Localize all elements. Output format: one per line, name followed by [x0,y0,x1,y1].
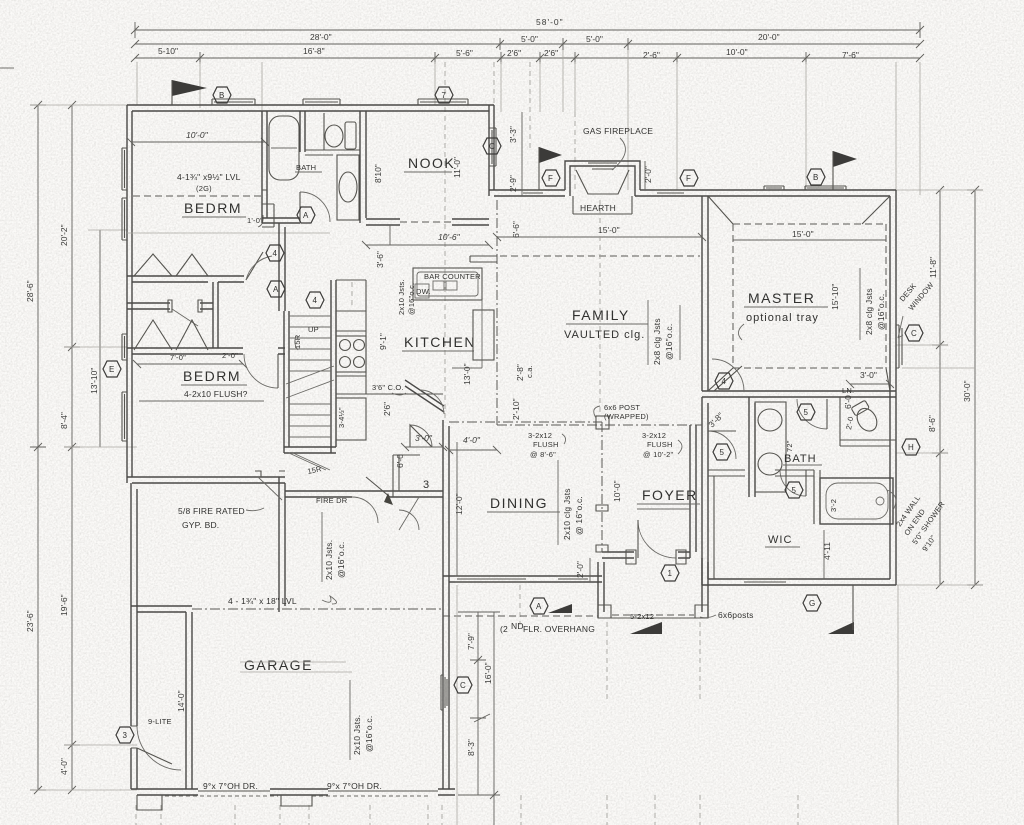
dimension line right inner 11-8 / 8'-6 / 9'10 [932,190,948,585]
svg-text:28'-0": 28'-0" [310,32,332,42]
svg-text:8'-3": 8'-3" [466,739,476,756]
svg-text:2'-9": 2'-9" [508,175,518,192]
dimension line top 58'-0" [135,22,920,38]
porch post right [695,605,708,618]
tub master [820,478,893,524]
svg-text:30'-0": 30'-0" [962,380,972,402]
extension lines from top dims down to building [137,50,920,195]
pantry door arc [410,390,444,447]
window bedroom2 west [122,334,127,360]
pennant master left [833,151,857,167]
hex F fireplace right [680,170,698,186]
window bedroom2 west lower [122,392,127,441]
bath south wall + door [262,218,300,223]
svg-text:VAULTED clg.: VAULTED clg. [564,329,645,341]
svg-text:2'-8": 2'-8" [515,364,525,381]
svg-text:2x8 clg Jsts: 2x8 clg Jsts [652,318,662,365]
svg-text:8'-6": 8'-6" [927,415,937,432]
toilet room wall [840,397,896,446]
north wall (double line) [127,105,494,111]
bath vanity wall [749,397,755,497]
svg-text:DW.: DW. [416,287,431,296]
hex A hall mid [267,281,285,297]
bedroom2 closet wall [127,348,243,354]
kitchen east dash boundary [496,200,498,425]
svg-text:4'-11: 4'-11 [822,542,832,560]
closet wall bedroom1 [127,276,244,282]
svg-text:BEDRM: BEDRM [183,368,241,384]
closet bifold peaks bedroom1 [134,254,208,276]
window bedroom1 west [122,148,127,190]
svg-text:4: 4 [313,296,318,305]
svg-text:@ 8'-6": @ 8'-6" [530,450,556,459]
tub [269,116,299,180]
stair treads [289,316,331,437]
svg-text:4 - 1¾" x 18" LVL: 4 - 1¾" x 18" LVL [228,596,297,606]
closet door arc [399,497,419,530]
svg-text:15'-0": 15'-0" [792,229,814,239]
porch left wall [598,562,604,618]
svg-text:15'-0": 15'-0" [598,225,620,235]
corner pantry dining side [405,380,444,412]
master east window [896,325,902,368]
hall door arc to wic area [708,431,736,459]
hex B master window [807,169,825,185]
window bedroom1 west lower [122,198,127,240]
svg-text:BEDRM: BEDRM [184,200,242,216]
svg-text:2'6": 2'6" [382,402,392,416]
svg-text:3: 3 [423,479,430,491]
svg-text:FIRE DR: FIRE DR [316,496,348,505]
svg-text:7'-0": 7'-0" [170,353,186,362]
svg-text:6x6 POST: 6x6 POST [604,403,640,412]
south wall of master block [702,579,896,585]
svg-text:19'-6": 19'-6" [59,594,69,616]
stair east wall [331,280,336,453]
foyer west boundary dashed [601,422,603,552]
svg-text:11'-0": 11'-0" [452,157,462,178]
dining north beam dash-dot [449,421,602,423]
dining south wall [443,576,602,582]
vanity hall bath [337,155,359,220]
svg-text:16'-0": 16'-0" [483,662,493,684]
closet bifold peaks bedroom2 [134,320,208,350]
dimension line top third row [135,52,920,64]
svg-text:BATH: BATH [784,453,817,465]
hex C nook window [483,138,501,154]
svg-text:9'-1": 9'-1" [378,333,388,350]
svg-text:4-1¾" x9½" LVL: 4-1¾" x9½" LVL [177,172,241,182]
master dim 15'-0 [733,239,886,241]
hex 5 hall door [713,444,731,460]
svg-text:3-4½": 3-4½" [337,407,346,428]
svg-text:G: G [809,599,815,608]
fireplace vent [588,163,617,169]
svg-text:GARAGE: GARAGE [244,657,313,673]
cabinet below stairs [336,398,366,440]
svg-text:NOOK: NOOK [408,155,455,171]
master north window 1 [764,186,784,190]
dishwasher [415,284,429,298]
triangle se [828,622,854,634]
svg-text:(2G): (2G) [196,184,212,193]
6x6 post family [596,416,609,429]
porch bottom beam [612,614,694,616]
svg-text:72": 72" [785,440,794,452]
hall bedroom2 door opening arc at south wall [258,477,282,500]
svg-text:4'-0": 4'-0" [59,758,69,775]
dining south window 1 [455,576,528,582]
beam dashed under note [133,195,262,197]
nook east wall [489,105,494,196]
dimension 13'-10 near west wall [99,230,101,447]
svg-text:F: F [686,174,691,183]
svg-text:(WRAPPED): (WRAPPED) [604,412,649,421]
svg-text:HEARTH: HEARTH [580,203,616,213]
svg-text:FAMILY: FAMILY [572,307,630,323]
svg-text:4'-0": 4'-0" [463,435,481,445]
svg-text:5-10": 5-10" [158,46,178,56]
family center faint vertical [599,200,601,415]
fireplace firebox trapezoid [576,170,629,194]
master north wall [702,190,896,196]
svg-text:2'-0": 2'-0" [643,166,653,183]
svg-text:2x10 clg Jsts: 2x10 clg Jsts [562,488,572,540]
svg-text:7: 7 [442,91,447,100]
hall wall y302 [127,303,213,309]
svg-text:13'-10": 13'-10" [89,368,99,394]
west wall upper (bedroom wing) [127,105,132,483]
svg-text:FLR. OVERHANG: FLR. OVERHANG [523,624,595,634]
svg-text:@ 16"o.c.: @ 16"o.c. [574,496,584,535]
svg-text:6'-0: 6'-0 [395,454,405,468]
bath door arc [300,192,330,222]
north window over nook [418,99,468,105]
svg-text:KITCHEN: KITCHEN [404,334,476,350]
toilet wall stub [329,149,360,151]
kitchen south counter line [366,393,443,395]
svg-text:C: C [489,142,495,151]
hex C garage window [454,677,472,693]
svg-text:2'6": 2'6" [544,48,558,58]
svg-text:6'-6": 6'-6" [511,221,521,238]
master toilet [850,400,881,435]
svg-text:@16"o.c.: @16"o.c. [364,716,374,752]
svg-text:20'-0": 20'-0" [758,32,780,42]
svg-text:2'-10": 2'-10" [511,398,521,420]
hex 5 bath door [797,404,815,420]
svg-text:(2: (2 [500,624,508,634]
hex H east [902,439,920,455]
svg-text:BATH: BATH [296,163,316,172]
garage west interior wall [186,612,192,789]
hex B top bedroom [213,87,231,103]
svg-text:5: 5 [792,486,797,495]
pennant fireplace left [539,147,562,163]
svg-text:2'-0": 2'-0" [222,351,238,360]
svg-text:5'-0": 5'-0" [586,34,603,44]
svg-text:H: H [908,443,914,452]
bath entry door arc [797,399,827,429]
svg-text:15R: 15R [293,334,302,349]
mid wall bedroom2 south [127,477,285,483]
family north wall right of fireplace [635,190,702,196]
svg-text:5-2x12: 5-2x12 [630,612,654,621]
svg-text:C: C [460,681,466,690]
svg-text:4-2x10 FLUSH?: 4-2x10 FLUSH? [184,389,248,399]
master tray dashed rect [733,224,886,368]
left extension lines [30,105,137,790]
svg-text:4: 4 [722,377,727,386]
stair west wall [284,311,289,453]
kitchen east builtin [473,310,494,360]
svg-text:8'-4": 8'-4" [59,412,69,429]
stair bottom wall [284,447,336,453]
svg-text:UP: UP [308,325,319,334]
svg-text:7'-6": 7'-6" [842,50,859,60]
svg-text:@16"o.c.: @16"o.c. [336,542,346,578]
svg-text:2'-0": 2'-0" [575,561,585,578]
bath mid wall [305,150,333,155]
garage north wall + beam [131,606,192,612]
svg-text:15'-10": 15'-10" [830,284,840,310]
triangle porch left [548,604,572,613]
dim 10'-0 bedroom1 [127,138,269,146]
vertical wall storage west [279,477,285,612]
svg-text:1: 1 [668,569,673,578]
garage door recess panel [281,795,312,806]
hex 3 side door [116,727,134,743]
svg-text:@ 10'-2": @ 10'-2" [643,450,674,459]
porch post left [598,605,611,618]
hall east wall above stairs [279,223,285,311]
bedroom1 door arc [246,252,263,280]
svg-text:5: 5 [720,448,725,457]
family north window right [655,190,686,193]
bath west wall [262,111,267,223]
nook kitchen dim 10'-6 [362,241,493,249]
svg-text:58'-0": 58'-0" [536,17,564,27]
north window over bath [303,99,340,105]
svg-text:FLUSH: FLUSH [533,440,559,449]
svg-text:c.a.: c.a. [525,365,534,378]
svg-text:3'-3": 3'-3" [508,126,518,143]
front door arc [638,520,676,558]
mid wall firewall [285,491,443,497]
svg-text:9°x 7°OH DR.: 9°x 7°OH DR. [327,781,382,791]
garage south wall top line over doors [198,790,438,792]
hex F fireplace left [542,170,560,186]
hex A hall bath [297,207,315,223]
svg-text:7'-9": 7'-9" [466,633,476,650]
front door jambs [626,550,686,564]
stove [336,336,366,372]
svg-text:3: 3 [123,731,128,740]
svg-text:5: 5 [804,408,809,417]
kitchen west counter band [336,280,366,394]
svg-text:23'-6": 23'-6" [25,610,35,632]
2nd floor overhang dashed [443,615,598,617]
svg-text:2'-6": 2'-6" [643,50,660,60]
hall jog walls [262,190,274,227]
svg-text:GAS FIREPLACE: GAS FIREPLACE [583,126,653,136]
svg-text:3'6" C.O.: 3'6" C.O. [372,383,404,392]
svg-text:optional tray: optional tray [746,312,819,324]
hex 5 wic door [785,482,803,498]
master south wall [702,391,896,397]
hall closet walls [393,455,420,497]
svg-text:16'-8": 16'-8" [303,46,325,56]
hex 4 master door [715,373,733,389]
svg-text:3'-6": 3'-6" [375,251,385,268]
master south window [742,579,788,582]
svg-text:9-LITE: 9-LITE [148,717,172,726]
svg-text:3'-2: 3'-2 [829,499,838,512]
garage east window [441,675,447,710]
triangle porch right [630,622,662,634]
svg-text:6'-0: 6'-0 [843,395,853,409]
svg-text:A: A [536,602,542,611]
svg-text:LN.: LN. [842,386,854,395]
hex E west wall [103,361,121,377]
svg-text:DINING: DINING [490,495,548,511]
family north window left [521,190,545,193]
svg-text:FOYER: FOYER [642,487,698,503]
bedroom2 wall right segment [278,348,285,354]
north window over bedroom1 [212,99,255,105]
hex C master east window [905,325,923,341]
garage beam dashed 4-LVL [192,608,443,610]
master door arc [712,359,744,391]
dining south window 2 [556,576,590,579]
svg-text:MASTER: MASTER [748,290,815,306]
hex A porch [530,598,548,614]
tub wall left [814,470,820,524]
bottom-left garage dims 7'-9 / 16'-0 / 8'-3 [458,612,500,825]
hex G south [803,595,821,611]
svg-text:B: B [813,173,818,182]
svg-text:2x10 Jsts.: 2x10 Jsts. [397,279,406,315]
svg-text:11'-8": 11'-8" [928,257,938,278]
nook south wall segments [366,219,489,225]
svg-text:4: 4 [273,249,278,258]
counter below stove [336,393,366,395]
hex 1 foyer [661,565,679,581]
bedroom2 door arc [244,354,278,388]
hex 4 hall upper [266,245,284,261]
family vaulted dashed ridge [500,255,700,257]
svg-text:GYP. BD.: GYP. BD. [182,520,219,530]
svg-text:5/8 FIRE RATED: 5/8 FIRE RATED [178,506,245,516]
svg-text:10'-6": 10'-6" [438,232,461,242]
bath east wall [360,111,366,223]
svg-text:BAR COUNTER: BAR COUNTER [424,272,481,281]
hex 4 hall lower [306,292,324,308]
vanity master [755,402,786,492]
svg-text:13'-0": 13'-0" [462,363,472,385]
dimension line left outer 28'-6 / 23'-6 [30,105,46,790]
svg-text:3'-0": 3'-0" [415,433,433,443]
svg-text:FLUSH: FLUSH [647,440,673,449]
dimension line left inner 20'-2 / 8'-4 / 19'-6 / 4'-0 [64,105,80,790]
stair break diagonals [286,366,334,398]
wic west wall [702,397,708,585]
foyer south wall w/ door opening [602,552,690,558]
svg-text:2x10 Jsts.: 2x10 Jsts. [352,715,362,755]
stair bottom diagonals [289,453,330,470]
svg-text:20'-2": 20'-2" [59,224,69,246]
hearth [573,196,632,214]
svg-text:10'-0": 10'-0" [186,130,209,140]
hex 7 top nook [435,87,453,103]
svg-text:6x6posts: 6x6posts [718,610,754,620]
tray corner diagonals [708,196,890,391]
garage stoop left [137,795,162,810]
east wall [890,190,896,585]
svg-text:ND: ND [511,621,524,631]
svg-text:F: F [548,174,553,183]
dimension line top second row [135,38,920,50]
svg-text:8'10": 8'10" [373,164,383,183]
svg-text:1'-0": 1'-0" [247,216,263,225]
faint vertical construction lines bottom [607,622,700,702]
bar counter [413,268,482,300]
svg-text:3-2x12: 3-2x12 [642,431,666,440]
svg-text:10'-0": 10'-0" [612,480,622,502]
svg-text:12'-0": 12'-0" [454,493,464,515]
diagonal hall wall [213,282,218,348]
master west wall [702,196,708,391]
svg-text:@16"o.c.: @16"o.c. [664,324,674,360]
svg-text:E: E [109,365,114,374]
svg-text:28'-6": 28'-6" [25,280,35,302]
svg-text:2x10 Jsts.: 2x10 Jsts. [324,540,334,580]
svg-text:C: C [911,329,917,338]
svg-text:WIC: WIC [768,534,792,546]
tub surround right wall [300,111,305,152]
svg-text:A: A [273,285,279,294]
west wall lower [131,483,137,789]
svg-text:2'6": 2'6" [507,48,521,58]
dimension line right outer 30'-0 [967,190,983,585]
right extension lines [896,190,983,585]
bar sink [433,281,444,290]
pennant top-left [172,80,207,96]
svg-text:B: B [219,91,224,100]
svg-text:9°x 7°OH DR.: 9°x 7°OH DR. [203,781,258,791]
wic door arc [780,470,806,496]
svg-text:3'-0": 3'-0" [860,370,877,380]
wic interior walls [708,470,814,476]
family west dashed boundary [497,424,702,426]
foyer east wall [690,425,696,558]
toilet hall bath [325,125,343,147]
nook east window [489,128,496,166]
fireplace bump outer [565,161,640,196]
svg-text:5'-0": 5'-0" [521,34,538,44]
svg-text:10'-0": 10'-0" [726,47,748,57]
svg-text:5'-6": 5'-6" [456,48,473,58]
master north window 2 [805,186,846,190]
svg-text:A: A [303,211,309,220]
svg-text:@16"o.c.: @16"o.c. [876,294,886,330]
porch right wall [702,558,708,618]
family north wall left of fireplace [489,190,565,196]
garage south wall [131,789,455,795]
svg-text:3-2x12: 3-2x12 [528,431,552,440]
dining west / garage east wall [443,420,449,789]
svg-text:14'-0": 14'-0" [176,690,186,712]
